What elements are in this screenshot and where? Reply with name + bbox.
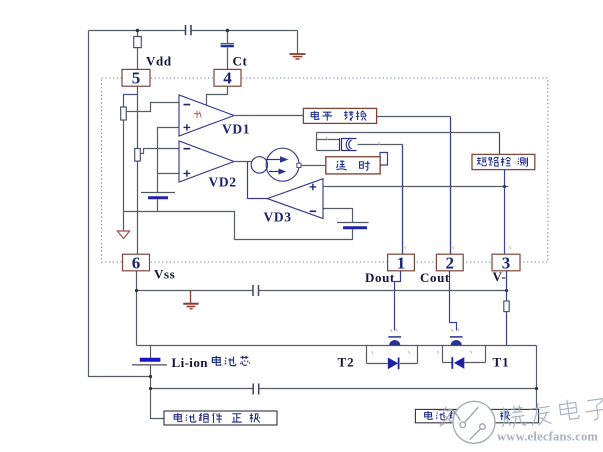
wire: battery positive stub — [150, 346, 152, 358]
short-circuit-detect box (duan-lu jian-ce) — [472, 154, 535, 169]
svg-text:VD3: VD3 — [264, 210, 292, 225]
wire: right edge down to negative-terminal box — [536, 346, 538, 410]
junction node right edge / lower rail — [535, 387, 538, 390]
wire: pin5 to R2 chain — [137, 86, 139, 148]
svg-text:V-: V- — [493, 269, 507, 284]
resistor R1 — [121, 107, 127, 120]
wire: R1 tap to VD1 inverting input — [126, 103, 179, 112]
battery reference B3 thick plate — [343, 226, 367, 229]
wire: R2 down to pin 6 — [137, 161, 139, 254]
wire: gate output to pin 1 column — [358, 144, 403, 146]
wire: R1 down to arrow — [123, 120, 125, 231]
wire: R3 down to pack rail — [506, 312, 508, 346]
oscillator small circle — [251, 157, 267, 173]
wire: battery pack top rail — [137, 345, 537, 347]
pin box 6 — [123, 254, 150, 271]
capacitor Ct plates — [221, 43, 235, 45]
wire: delay output hook — [380, 153, 388, 166]
pink pin marks — [327, 137, 511, 354]
MOSFET T2 gate bar — [388, 336, 401, 338]
capacitor C2 (on Vss rail) — [253, 285, 259, 296]
wire: T1 body diode branch — [443, 362, 486, 364]
arrow terminal (down, above pin 6) — [117, 231, 129, 239]
capacitor C3 (on lower rail) — [253, 384, 259, 395]
wire: feed line to short-detect box — [317, 132, 500, 134]
battery reference B3 (under VD3) thin plate — [337, 222, 369, 224]
junction on VD3+ line — [503, 185, 506, 188]
resistor R-vdd — [134, 37, 142, 48]
dotted IC boundary box — [102, 78, 548, 262]
svg-text:Vss: Vss — [154, 267, 175, 282]
battery Li-ion cell thin plate — [132, 364, 167, 366]
wire: B2 stem to internal ground rail — [157, 199, 159, 211]
MOSFET T1 source/drain stubs — [443, 346, 486, 363]
elecfans stamp circle — [453, 401, 495, 443]
wire: VD2 output to oscillator — [234, 161, 251, 163]
battery negative terminal box — [415, 409, 538, 422]
body diode D2 (points right) — [388, 358, 398, 370]
junction node pin6/Vss rail — [135, 289, 138, 292]
oscillator big circle — [266, 148, 299, 181]
wire: VD1 non-inverting input and reference column — [158, 128, 180, 193]
wire: VD2 non-inverting input — [158, 173, 180, 175]
svg-text:Li-ion: Li-ion — [172, 355, 209, 370]
MOSFET T2 body dome — [389, 340, 400, 345]
battery Li-ion cell thick plate — [140, 358, 161, 362]
ground (top right) — [290, 54, 306, 59]
pin box 1 — [388, 254, 415, 271]
pin box 3 — [492, 254, 520, 271]
junction node on top rail (Vdd) — [136, 29, 139, 32]
wire: VD3 output loop up to oscillator — [248, 162, 268, 199]
wire: short-detect down to pin 3 column — [504, 170, 506, 255]
oscillator arrow 2 — [269, 169, 285, 174]
op-amp VD1 — [179, 95, 234, 136]
oscillator arrow 1 — [266, 157, 287, 162]
junction node Vss rail / V- column — [505, 289, 508, 292]
oscillator output pin square — [297, 163, 301, 167]
svg-text:4: 4 — [223, 69, 232, 88]
logic gate (crescent) — [340, 138, 357, 151]
wire: oscillator to delay box — [301, 165, 326, 167]
battery positive terminal box — [164, 411, 277, 425]
MOSFET T2 source/drain stubs — [367, 346, 418, 364]
junction node battery column / lower rail — [149, 387, 152, 390]
resistor R3 — [504, 301, 509, 312]
svg-text:Vdd: Vdd — [146, 54, 172, 69]
wire: level-shift output to pin 2 column — [377, 116, 451, 118]
wire: VD3 inverting input to B3 — [323, 209, 353, 223]
battery reference B2 (under VD2) thin plate — [141, 192, 175, 194]
red mark inside VD1 — [194, 111, 201, 119]
wire: Vdd leg — [137, 31, 139, 70]
wire: top supply rail — [89, 30, 298, 32]
wire: Cout pin2 to T1 gate — [450, 271, 457, 331]
wire: Ct leg — [227, 31, 229, 70]
wire: Vss rail — [137, 290, 507, 292]
body diode D1 (points left) — [454, 357, 464, 369]
svg-text:Cout: Cout — [420, 270, 450, 285]
svg-text:T2: T2 — [338, 355, 355, 370]
pin box 5 — [122, 69, 150, 86]
wire: internal ground rail — [124, 212, 353, 240]
delay box (yan-shi) — [326, 157, 380, 174]
junction node left loop / battery column — [149, 375, 152, 378]
wire: VD3 non-inverting input line to short-detect column — [323, 186, 508, 188]
svg-text:1: 1 — [397, 253, 406, 272]
wire: R2 jog to VD2 inverting input — [140, 149, 179, 154]
svg-text:5: 5 — [132, 69, 141, 88]
op-amp VD2 — [179, 141, 234, 182]
MOSFET T1 body dome — [451, 340, 462, 345]
wire: VD1 output to level-shift box — [234, 115, 303, 117]
wire: Dout pin1 to T2 gate — [395, 271, 401, 331]
watermark hanzi right of stamp — [500, 398, 603, 429]
ground (on Vss rail) — [183, 291, 199, 309]
wire: pin 6 down to battery junction — [136, 271, 138, 346]
wire: left outer loop — [89, 31, 151, 377]
resistor R2 — [135, 149, 141, 162]
junction node on top rail (Ct) — [226, 29, 229, 32]
wire: T2 body diode branch — [367, 363, 418, 365]
wire: V- pin3 to resistor R3 — [506, 271, 508, 301]
MOSFET T1 gate bar — [450, 336, 463, 338]
wire: battery negative down to positive-terminal box — [151, 366, 165, 419]
wire: branch to R1 — [124, 95, 138, 108]
wire: stub to gate inputs — [317, 133, 340, 151]
level-shift box (dian-ping zhuan-huan) — [303, 108, 376, 123]
svg-text:www.elecfans.com: www.elecfans.com — [497, 430, 598, 444]
svg-text:Ct: Ct — [233, 54, 248, 69]
svg-text:VD2: VD2 — [209, 175, 237, 190]
pin box 4 — [214, 69, 241, 86]
stamp logo strokes — [448, 407, 486, 439]
capacitor C1 (top rail) — [186, 25, 192, 35]
op-amp VD3 (points left) — [267, 179, 323, 219]
svg-text:VD1: VD1 — [222, 122, 250, 137]
wire: pin4 link to VD1 — [207, 86, 228, 105]
pin box 2 — [436, 254, 463, 271]
watermark hanzi left of stamp — [439, 407, 456, 427]
svg-text:6: 6 — [132, 253, 141, 272]
svg-text:T1: T1 — [493, 355, 510, 370]
battery reference B2 thick plate — [148, 196, 168, 199]
svg-text:Dout: Dout — [365, 270, 395, 285]
wire: drop to top-right ground — [297, 31, 299, 54]
wire: lower pack rail — [151, 388, 537, 390]
